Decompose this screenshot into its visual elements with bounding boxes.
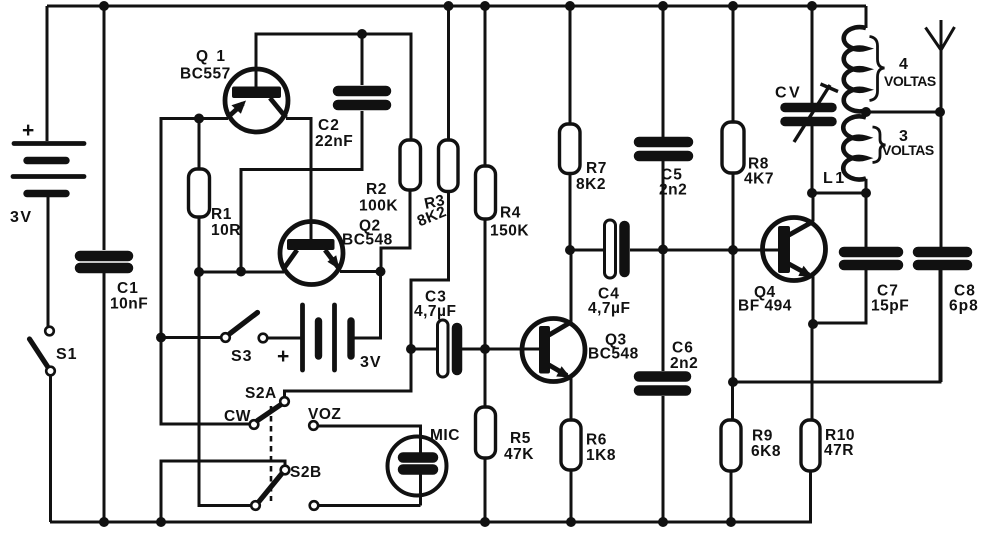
wire Q1 base to C2 and R2 bbox=[256, 34, 411, 140]
resistor R3 bbox=[411, 140, 458, 349]
transistor Q2 bbox=[280, 119, 343, 285]
svg-text:8K2: 8K2 bbox=[576, 176, 606, 193]
wire C1 bottom lead bbox=[103, 273, 106, 522]
junction R1 top bbox=[194, 114, 204, 124]
capacitor C7 bbox=[813, 252, 898, 323]
junction CV bottom node bbox=[807, 188, 817, 198]
capacitor C8 bbox=[918, 252, 967, 382]
junction R8 node bbox=[728, 245, 738, 255]
svg-text:150K: 150K bbox=[490, 223, 529, 240]
svg-text:CW: CW bbox=[224, 408, 251, 425]
resistor R5 bbox=[476, 349, 496, 522]
svg-text:S3: S3 bbox=[231, 348, 253, 365]
wire CV node to coil bottom bbox=[812, 192, 866, 195]
svg-text:VOLTAS: VOLTAS bbox=[884, 73, 936, 89]
transistor Q4 bbox=[763, 218, 826, 281]
battery B2 3V bbox=[303, 305, 352, 370]
svg-text:10R: 10R bbox=[211, 222, 241, 239]
junction C3 left node bbox=[406, 344, 416, 354]
resistor R9 bbox=[721, 382, 741, 522]
junction Q3 collector C4 node bbox=[565, 245, 575, 255]
wire S1 to ground rail bbox=[49, 376, 52, 523]
svg-text:S2B: S2B bbox=[290, 464, 322, 481]
junction ground rail R9 bbox=[726, 517, 736, 527]
resistor R1 bbox=[189, 119, 210, 273]
junction C5 C6 node bbox=[658, 245, 668, 255]
switch S1 bbox=[30, 327, 55, 376]
brace 4 turns bbox=[870, 37, 885, 101]
svg-text:R7: R7 bbox=[586, 160, 607, 177]
svg-text:1K8: 1K8 bbox=[586, 447, 616, 464]
svg-text:100K: 100K bbox=[359, 198, 398, 215]
wire Q3 emitter to R6 bbox=[570, 376, 573, 420]
svg-text:C1: C1 bbox=[117, 280, 139, 297]
wire Q2 emitter node bbox=[340, 272, 381, 339]
switch S2A bbox=[250, 397, 289, 429]
junction top rail R4 bbox=[480, 1, 490, 11]
svg-text:R4: R4 bbox=[500, 205, 521, 222]
wire S3 to B2 bbox=[268, 337, 303, 340]
wire R9 C8 node to C8 bottom bbox=[733, 270, 940, 382]
svg-text:CV: CV bbox=[775, 85, 802, 102]
inductor L1 winding 3 turns bbox=[843, 116, 866, 193]
svg-text:R2: R2 bbox=[366, 181, 387, 198]
capacitor C6 bbox=[639, 377, 686, 523]
svg-text:BC548: BC548 bbox=[342, 232, 393, 249]
svg-text:L1: L1 bbox=[823, 170, 847, 187]
svg-text:3V: 3V bbox=[360, 354, 382, 371]
wire C2 bottom to Q2 collector node bbox=[241, 111, 362, 272]
battery B1 3V bbox=[13, 144, 84, 194]
resistor R4 bbox=[476, 166, 496, 349]
resistor R8 bbox=[722, 122, 744, 382]
junction R9 C8 node bbox=[728, 377, 738, 387]
junction ground rail C1 bbox=[99, 517, 109, 527]
svg-text:2n2: 2n2 bbox=[659, 182, 687, 199]
wire C1 top lead bbox=[103, 6, 106, 250]
svg-text:MIC: MIC bbox=[430, 427, 460, 444]
terminal VOZ bbox=[309, 421, 318, 430]
svg-text:VOLTAS: VOLTAS bbox=[882, 142, 934, 158]
junction Q4 emitter C7 R10 node bbox=[808, 319, 818, 329]
junction ground rail S2B bbox=[156, 517, 166, 527]
junction C2 branch node bbox=[236, 267, 246, 277]
wire MIC bottom to terminal bbox=[319, 504, 421, 507]
wire C4 right to Q4 base bbox=[630, 249, 778, 252]
svg-text:2n2: 2n2 bbox=[670, 355, 698, 372]
microphone MIC bbox=[388, 437, 447, 506]
junction C2 top bbox=[357, 29, 367, 39]
junction L1 tap bbox=[861, 107, 871, 117]
brace 3 turns bbox=[873, 127, 886, 163]
wire Q3 collector lead bbox=[570, 250, 573, 322]
wire C6 top lead bbox=[662, 250, 665, 372]
junction top rail CV bbox=[807, 1, 817, 11]
capacitor C5 bbox=[639, 142, 688, 250]
svg-text:6p8: 6p8 bbox=[949, 298, 979, 315]
junction ground rail R5 bbox=[480, 517, 490, 527]
resistor R6 bbox=[561, 420, 581, 522]
junction R1 bottom node bbox=[194, 267, 204, 277]
svg-text:15pF: 15pF bbox=[871, 298, 909, 315]
junction top rail R3 bbox=[444, 1, 454, 11]
terminal MIC return bbox=[310, 501, 319, 510]
capacitor C4 electrolytic bbox=[605, 220, 625, 278]
wire R7 top lead bbox=[569, 6, 572, 124]
capacitor C2 bbox=[338, 34, 386, 105]
wire bottom ground rail bbox=[50, 521, 812, 524]
wire R3 top lead bbox=[447, 6, 450, 140]
gang dashed link S2 bbox=[270, 406, 273, 501]
wire battery B1 positive lead bbox=[46, 6, 49, 141]
wire L1 tap to antenna bbox=[866, 111, 940, 114]
svg-text:R1: R1 bbox=[211, 206, 232, 223]
svg-text:S1: S1 bbox=[56, 346, 78, 363]
svg-text:4: 4 bbox=[899, 56, 908, 73]
svg-text:BF 494: BF 494 bbox=[738, 298, 792, 315]
svg-text:R6: R6 bbox=[586, 432, 607, 449]
resistor R10 bbox=[801, 324, 820, 522]
svg-text:4,7µF: 4,7µF bbox=[588, 300, 630, 317]
wire top supply rail bbox=[47, 5, 866, 8]
wire coil bottom to C7 bbox=[865, 193, 868, 247]
wire S2B top to ground rail bbox=[161, 461, 285, 522]
svg-text:47K: 47K bbox=[504, 446, 534, 463]
junction top rail R8 bbox=[728, 1, 738, 11]
wire R8 top lead bbox=[732, 6, 735, 122]
switch S3 bbox=[221, 313, 267, 343]
resistor R2 bbox=[381, 140, 421, 272]
svg-text:+: + bbox=[22, 119, 34, 142]
junction ground rail C6 bbox=[658, 517, 668, 527]
svg-text:10nF: 10nF bbox=[110, 296, 148, 313]
wire S3 to emitter line bbox=[161, 336, 221, 339]
svg-text:BC557: BC557 bbox=[180, 66, 231, 83]
wire battery B1 to S1 bbox=[47, 197, 50, 327]
junction coil bottom node bbox=[861, 188, 871, 198]
wire Q1 emitter to R1 and S-line bbox=[161, 119, 250, 425]
svg-text:R9: R9 bbox=[752, 428, 773, 445]
junction top rail R7 bbox=[565, 1, 575, 11]
wire C4 left lead bbox=[570, 249, 604, 252]
wire R1 to Q2 collector bbox=[199, 271, 284, 274]
junction Q2 emitter R2 battery node bbox=[376, 267, 386, 277]
junction top rail C1 bbox=[99, 1, 109, 11]
resistor R7 bbox=[560, 124, 581, 250]
svg-text:3V: 3V bbox=[10, 209, 33, 226]
antenna bbox=[926, 20, 955, 247]
svg-text:6K8: 6K8 bbox=[751, 443, 781, 460]
capacitor C3 electrolytic bbox=[438, 320, 458, 377]
wire C3 right to Q3 base bbox=[462, 348, 539, 351]
wire C3 left lead bbox=[411, 348, 438, 351]
svg-text:VOZ: VOZ bbox=[308, 406, 341, 423]
transistor Q1 bbox=[225, 69, 288, 132]
svg-text:C6: C6 bbox=[672, 340, 694, 357]
transistor Q3 bbox=[522, 319, 585, 382]
svg-text:4,7µF: 4,7µF bbox=[414, 303, 456, 320]
svg-text:BC548: BC548 bbox=[588, 346, 639, 363]
wire Q4 emitter lead bbox=[812, 276, 815, 325]
junction R4 R5 node bbox=[480, 344, 490, 354]
svg-text:+: + bbox=[277, 345, 289, 368]
capacitor C1 bbox=[80, 256, 128, 268]
svg-text:47R: 47R bbox=[824, 442, 854, 459]
svg-text:S2A: S2A bbox=[245, 385, 277, 402]
svg-text:22nF: 22nF bbox=[315, 133, 353, 150]
inductor L1 winding 4 turns bbox=[844, 6, 866, 111]
svg-text:4K7: 4K7 bbox=[744, 171, 774, 188]
variable capacitor CV bbox=[785, 84, 838, 193]
wire S2A common to node bbox=[285, 349, 412, 398]
switch S2B bbox=[251, 466, 289, 510]
wire CV top lead bbox=[811, 6, 814, 104]
junction antenna tap bbox=[935, 107, 945, 117]
wire VOZ to MIC top bbox=[318, 426, 421, 453]
svg-text:Q 1: Q 1 bbox=[196, 48, 227, 65]
svg-text:R5: R5 bbox=[510, 430, 531, 447]
wire Q4 collector lead bbox=[812, 193, 815, 222]
junction top rail C5 bbox=[658, 1, 668, 11]
junction S3 line bbox=[156, 333, 166, 343]
wire C5 top lead bbox=[662, 6, 665, 137]
wire S2B bottom to R1 node bbox=[199, 272, 251, 506]
junction ground rail R6 bbox=[566, 517, 576, 527]
wire R4 top lead bbox=[484, 6, 487, 166]
svg-text:C2: C2 bbox=[318, 117, 340, 134]
